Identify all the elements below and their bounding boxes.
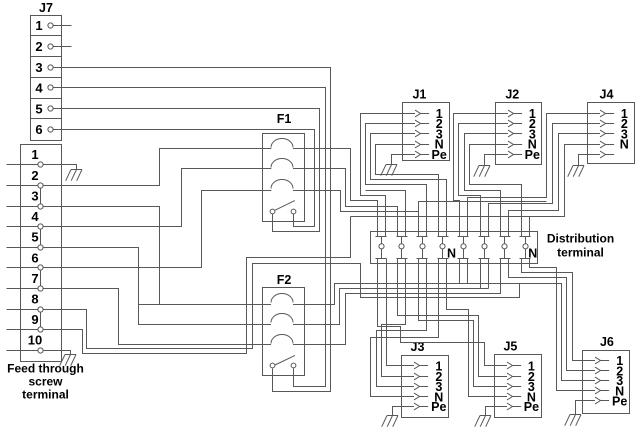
svg-text:5: 5 (31, 230, 38, 245)
J4 pin 2 (588, 117, 628, 131)
wire F1 pole 2 out to terminal 2 left (305, 169, 398, 237)
svg-text:J6: J6 (600, 335, 614, 349)
J5 pin 1 (495, 359, 535, 373)
J2 pin N (496, 138, 537, 152)
wire feed terminal row 8 left stub (7, 309, 21, 311)
distribution terminal circles (379, 244, 528, 249)
wire F1 pole 1 out to terminal 1 left (305, 149, 378, 237)
svg-text:3: 3 (35, 60, 42, 75)
F1 pole 2 arc (263, 159, 305, 169)
distribution terminal position 6 (479, 237, 490, 259)
wire terminal row 1 to chassis ground (44, 165, 77, 170)
connector J3 (402, 340, 449, 417)
wire jumper terminal rows 4-5 (40, 227, 42, 248)
wire feed terminal row 10 left stub (7, 350, 21, 352)
wire F2 pole 3 out to terminal 7 left (305, 259, 501, 345)
connector J7 (31, 1, 62, 141)
J7 pin 2 (35, 39, 53, 54)
wire jumper terminal rows 2-3 (40, 186, 42, 207)
wire feed terminal row 6 left stub (7, 267, 21, 269)
J1 pin 3 (403, 127, 443, 141)
svg-text:4: 4 (31, 209, 39, 224)
svg-text:Pe: Pe (431, 400, 446, 414)
wire J4 pin 1 to terminal 5 right (468, 114, 588, 237)
distribution terminal position 4 (438, 237, 449, 259)
svg-text:F1: F1 (277, 112, 292, 126)
J7 pin 4 (35, 81, 53, 96)
ground chassis at J4 (568, 166, 584, 177)
J7 pin 6 (35, 122, 53, 137)
feed through screw terminal (21, 145, 62, 362)
wire terminal 4 right to J5 pin N (447, 259, 495, 397)
wire jumper terminal rows 6-7 (40, 268, 42, 289)
distribution terminal position 5 (458, 237, 469, 259)
circuit breaker F1 (263, 112, 305, 222)
wire terminal 3 right to J3 pin 3 (377, 259, 427, 387)
svg-text:N: N (620, 138, 629, 152)
wire J1 pin N to terminal 4 left (376, 145, 439, 237)
svg-text:Pe: Pe (612, 394, 627, 408)
ground chassis at J6 (565, 415, 581, 426)
svg-text:Pe: Pe (524, 400, 539, 414)
wire terminal 1 left to J5 pin 1 (378, 259, 495, 366)
wire terminal row 7 to F2 pole 3 (44, 289, 263, 345)
wire terminal row 5 to F2 poles 1,2 (44, 248, 263, 325)
J6 pin 3 (583, 374, 624, 388)
svg-text:Pe: Pe (525, 148, 540, 162)
J1 pin 1 (403, 107, 443, 121)
svg-text:terminal: terminal (22, 388, 69, 402)
ground chassis at J1 (381, 165, 397, 176)
J4 pin 3 (588, 127, 628, 141)
J2 pin 2 (496, 117, 536, 131)
distribution terminal position 8 (520, 237, 531, 259)
wire terminal row 9 to J4 pin N line (44, 217, 351, 354)
F2 switch (270, 355, 296, 368)
wire J4 pin 3 to terminal 7 right (509, 134, 588, 237)
J3 pin Pe (402, 400, 447, 414)
ground chassis at terminal row 1 (66, 170, 82, 181)
wire terminal 8 right tap to J4 N line (529, 217, 531, 237)
wire terminal 6 right bottom tap (488, 259, 490, 289)
wire J3 pin Pe to ground (393, 407, 402, 416)
ground chassis at terminal row 10 (60, 355, 76, 366)
wire J2 pin N to terminal 8 left (470, 145, 522, 237)
svg-text:5: 5 (35, 101, 42, 116)
J6 pin 1 (583, 354, 624, 368)
wire J1 pin 3 to terminal 4 right (371, 134, 447, 237)
wire terminal 2 left to J5 pin 2 (398, 259, 495, 377)
J4 pin N (588, 138, 629, 152)
wire J1 pin Pe to ground (392, 155, 403, 165)
wire terminal 5 left bottom tap (459, 259, 461, 284)
connector J6 (583, 335, 630, 414)
connector J5 (495, 339, 542, 417)
wire terminal row 8 N bus (44, 264, 520, 349)
J6 pin Pe (583, 394, 628, 408)
svg-text:3: 3 (31, 189, 38, 204)
wire J5 pin Pe to ground (486, 407, 495, 416)
J4 pin 1 (588, 107, 628, 121)
J7 pin 3 (35, 60, 53, 75)
J2 pin 1 (496, 107, 536, 121)
wire terminal 7 right to J6 pin 2 (509, 259, 583, 371)
wire feed terminal row 3 left stub (7, 206, 21, 208)
svg-text:F2: F2 (277, 273, 292, 287)
J5 pin 2 (495, 370, 535, 384)
wire J4 pin N line to node 351 (351, 145, 588, 217)
wire node to terminal 2 right (366, 191, 406, 237)
J3 pin 1 (402, 359, 443, 373)
wire terminal 8 right to J6 pin N (530, 259, 583, 391)
distribution terminal (371, 232, 538, 264)
svg-text:7: 7 (31, 271, 38, 286)
J1 pin N (403, 138, 444, 152)
wire J4 pin Pe to ground (579, 155, 588, 166)
wire terminal 5 right bottom tap (467, 259, 469, 284)
svg-text:1: 1 (31, 147, 38, 162)
wire terminal 6 left bottom tap (480, 259, 482, 289)
distribution terminal position 2 (397, 237, 408, 259)
svg-text:J5: J5 (503, 339, 517, 353)
svg-text:4: 4 (35, 81, 43, 96)
svg-text:10: 10 (28, 333, 42, 348)
distribution terminal position 3 (417, 237, 428, 259)
wire terminal 1 right to J3 pin 1 (387, 259, 402, 366)
J5 pin N (495, 390, 536, 404)
svg-text:J1: J1 (412, 88, 426, 102)
J6 pin 2 (583, 364, 624, 378)
wire J6 pin Pe to ground (576, 401, 583, 415)
J1 pin Pe (403, 148, 447, 162)
wire J7 pin 2 stub (54, 46, 72, 48)
ground chassis at J3 (382, 416, 398, 427)
wire J2 pin 1 to terminal 5 left (454, 114, 496, 237)
wire J7 pin 5 to F1 switch left (54, 109, 320, 232)
ground chassis at J5 (475, 416, 491, 427)
wire feed terminal row 9 left stub (7, 329, 21, 331)
wire feed terminal row 7 left stub (7, 288, 21, 290)
wire F2 pole 1 input (139, 304, 263, 306)
wire terminal row 4 to F1 pole 2 (44, 169, 263, 227)
svg-text:2: 2 (35, 39, 42, 54)
wire node line to terminal 3 left (419, 202, 547, 237)
J4 pin 5 (588, 151, 615, 158)
distribution terminal label (547, 232, 614, 260)
wire F2 pole 1 out to terminal 5 and J6 pin 3 (305, 284, 583, 381)
wire terminal 4 left to J3 pin N (371, 259, 439, 397)
svg-text:J7: J7 (39, 1, 53, 15)
svg-text:Feed through: Feed through (7, 362, 84, 376)
J2 pin Pe (496, 148, 540, 162)
svg-text:J2: J2 (505, 88, 519, 102)
svg-text:6: 6 (35, 122, 42, 137)
F1 pole 1 arc (263, 139, 305, 149)
svg-text:6: 6 (31, 250, 38, 265)
wire terminal row 6 to F1 pole 3 (44, 191, 263, 268)
distribution terminal position 1 (376, 237, 387, 259)
wire terminal 8 left to J6 pin 1 (522, 259, 583, 361)
F2 pole 1 arc (263, 294, 305, 305)
wire feed terminal row 4 left stub (7, 226, 21, 228)
wire J7 pin 6 to F1 switch right (54, 130, 315, 227)
wire J2 pin 2 to terminal 6 left (459, 124, 496, 237)
J3 pin 2 (402, 370, 443, 384)
feed through terminal label (7, 362, 84, 402)
wire J2 pin Pe to ground (485, 155, 496, 166)
wire J2 pin 3 to terminal 7 left (465, 134, 501, 237)
F1 pole 3 arc (263, 180, 305, 191)
J7 pin 5 (35, 101, 53, 116)
svg-text:Pe: Pe (432, 148, 447, 162)
wire terminal row 2 to F1 pole 1 (44, 149, 263, 186)
ground chassis at J2 (474, 166, 490, 177)
wire terminal row 3 to F2 pole 1 feed (44, 207, 160, 305)
wire J7 pin 1 stub (54, 25, 72, 27)
svg-text:2: 2 (31, 168, 38, 183)
wire J1 pin 1 to terminal 1 right (361, 114, 403, 237)
connector J2 (496, 88, 542, 165)
wire feed terminal row 1 left stub (7, 164, 21, 166)
J6 pin N (583, 384, 625, 398)
F2 pole 2 arc (263, 314, 305, 325)
J3 pin 3 (402, 380, 443, 394)
svg-text:Distribution: Distribution (547, 232, 614, 246)
connector J4 (588, 88, 635, 164)
wire J7 pin 3 to F2 switch left (54, 68, 331, 392)
wire J1 pin 2 to terminal 3 right (366, 124, 427, 237)
J7 pin 1 (35, 18, 53, 33)
wire J7 pin 4 to F2 switch right (54, 88, 326, 387)
J5 pin 3 (495, 380, 535, 394)
F2 pole 3 arc (263, 335, 305, 345)
svg-text:terminal: terminal (557, 246, 604, 260)
J2 pin 3 (496, 127, 536, 141)
wire feed terminal row 5 left stub (7, 247, 21, 249)
wire feed terminal row 2 left stub (7, 185, 21, 187)
wire F2 pole 2 out to terminal 6 (305, 289, 489, 325)
feed terminal circles (38, 162, 43, 353)
svg-text:9: 9 (31, 312, 38, 327)
svg-text:1: 1 (35, 18, 42, 33)
connector J1 (403, 88, 450, 161)
svg-text:screw: screw (28, 375, 63, 389)
circuit breaker F2 (263, 273, 305, 376)
J3 pin N (402, 390, 444, 404)
J5 pin Pe (495, 400, 540, 414)
wire terminal 3 left to J5 pin 3 (419, 259, 495, 387)
J1 pin 2 (403, 117, 443, 131)
wire terminal row 10 to chassis ground (44, 351, 71, 355)
svg-text:N: N (528, 247, 537, 261)
svg-text:8: 8 (31, 292, 38, 307)
distribution terminal position 7 (500, 237, 511, 259)
wire terminal 2 right to J3 pin 2 (382, 259, 406, 377)
wire F1 pole 3 out to terminal 3 left (305, 191, 419, 212)
svg-text:N: N (447, 247, 456, 261)
wire J4 pin 2 to terminal 6 right (489, 124, 588, 237)
F1 switch (270, 201, 296, 214)
wire jumper terminal rows 8-9 (40, 310, 42, 330)
svg-text:J4: J4 (600, 88, 614, 102)
